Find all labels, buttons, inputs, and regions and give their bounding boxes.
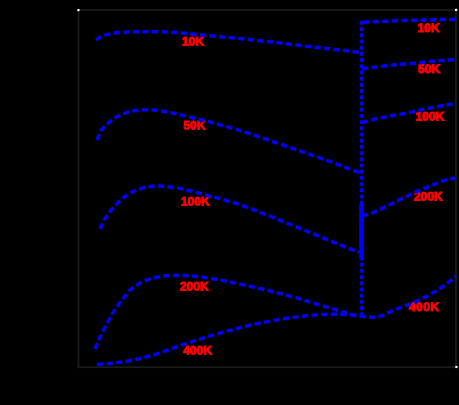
corner dot top-left [77, 9, 79, 11]
corner dot bottom-right [455, 366, 457, 368]
svg-text:10K: 10K [182, 35, 204, 49]
svg-text:50K: 50K [418, 62, 440, 76]
curve 50K right branch [362, 60, 455, 69]
curve 100K right branch [362, 104, 455, 123]
curve 200K left branch [95, 275, 360, 349]
curve 400K continuous [97, 276, 456, 364]
corner dot top-right [455, 9, 457, 11]
svg-text:200K: 200K [180, 280, 209, 294]
curve 10K right branch [363, 19, 455, 22]
curve 50K left branch [97, 110, 359, 173]
svg-text:10K: 10K [418, 21, 440, 35]
svg-text:400K: 400K [409, 300, 440, 314]
jump line doubled solid segment [359, 204, 364, 259]
curve 100K left branch [100, 186, 359, 253]
jump line vertical [360, 21, 364, 318]
curve 200K right branch [362, 178, 455, 216]
curve 10K left branch [96, 32, 359, 53]
plot frame [79, 10, 456, 367]
svg-text:400K: 400K [183, 344, 212, 358]
